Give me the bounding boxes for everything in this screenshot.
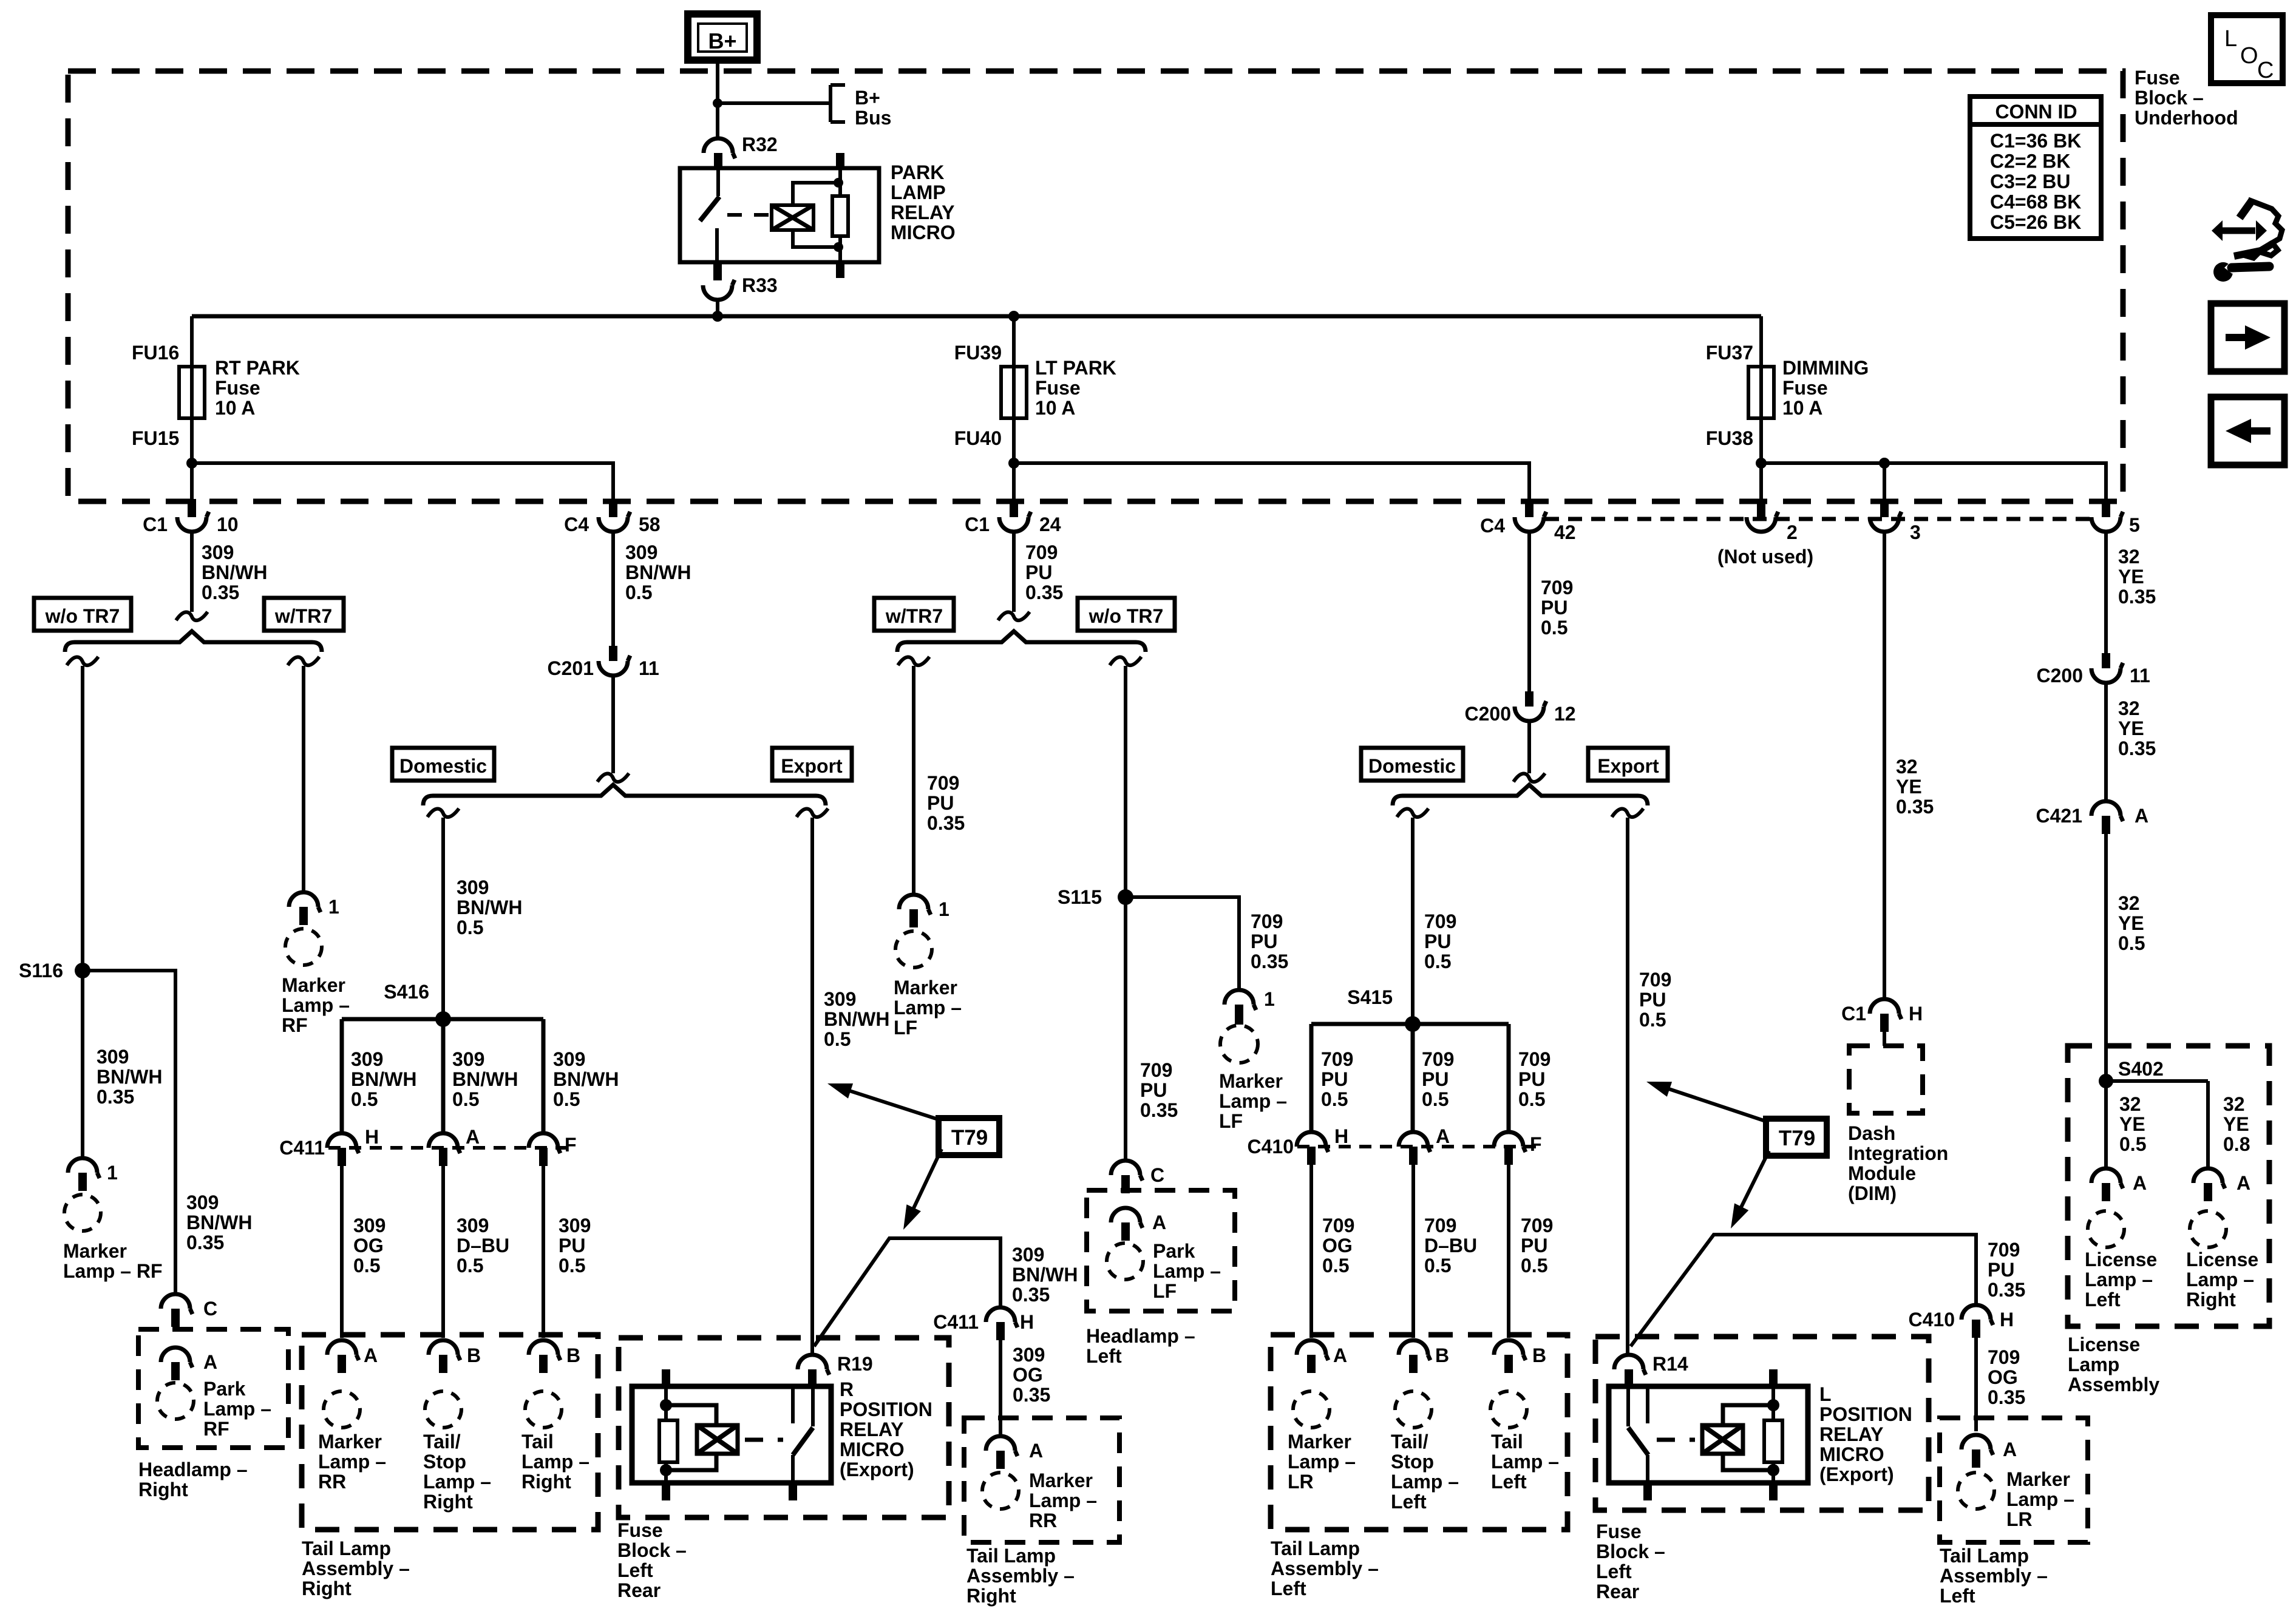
connector C410 pin H (1297, 1132, 1328, 1152)
svg-text:309: 309 (186, 1192, 219, 1213)
svg-text:Fuse: Fuse (2135, 67, 2180, 89)
node bus-FU39 (1008, 311, 1019, 322)
svg-text:Left: Left (2085, 1289, 2121, 1310)
svg-text:Export: Export (1597, 755, 1659, 777)
svg-text:PU: PU (1140, 1079, 1167, 1101)
wire Domestic branch to S416 (427, 808, 459, 817)
wire 32 YE 0.35 below C200-11 (2104, 682, 2108, 801)
lamp tail/stop lamp right bulb (425, 1391, 461, 1428)
svg-text:0.35: 0.35 (202, 581, 239, 603)
connector C411 pin F (529, 1133, 560, 1153)
svg-text:PU: PU (1518, 1068, 1545, 1090)
svg-text:Stop: Stop (423, 1451, 466, 1473)
svg-text:BN/WH: BN/WH (1012, 1264, 1078, 1286)
svg-text:0.5: 0.5 (1521, 1255, 1547, 1276)
node coil-resistor bottom (834, 242, 843, 252)
svg-text:709: 709 (1322, 1215, 1354, 1236)
wire branch w/o TR7 (67, 657, 98, 665)
arrow T79 to relay wire (910, 1149, 942, 1216)
svg-text:0.5: 0.5 (452, 1088, 479, 1110)
svg-text:Block –: Block – (617, 1539, 687, 1561)
svg-text:Lamp –: Lamp – (2006, 1488, 2074, 1510)
svg-text:Right: Right (423, 1491, 473, 1513)
svg-text:Right: Right (2186, 1289, 2236, 1310)
tail lamp assembly left dashed box (1271, 1335, 1567, 1530)
svg-text:0.35: 0.35 (1013, 1384, 1050, 1406)
svg-text:0.5: 0.5 (457, 1255, 483, 1276)
connector C421 pin A (2091, 801, 2123, 821)
wire C411-A down (441, 1166, 445, 1338)
svg-text:309: 309 (1012, 1244, 1044, 1266)
relay R19 coil (697, 1425, 738, 1454)
svg-text:1: 1 (1264, 988, 1275, 1010)
node FU38 branch (1756, 458, 1767, 469)
relay armature dashed link (727, 213, 770, 217)
svg-text:0.35: 0.35 (1012, 1284, 1050, 1306)
svg-text:A: A (1436, 1125, 1450, 1147)
svg-text:Lamp – RF: Lamp – RF (63, 1260, 163, 1282)
svg-text:Right: Right (138, 1479, 188, 1500)
relay R position relay micro box (632, 1386, 831, 1483)
svg-text:MICRO: MICRO (891, 222, 956, 243)
svg-text:A: A (2133, 1172, 2147, 1194)
svg-text:LAMP: LAMP (891, 181, 946, 203)
node bus-R33 (712, 311, 723, 322)
svg-text:B: B (1435, 1344, 1449, 1366)
arrow T79 to export wire (844, 1089, 942, 1120)
svg-text:0.35: 0.35 (1251, 951, 1288, 972)
connector C411 pin A (429, 1133, 460, 1153)
svg-text:Domestic: Domestic (399, 755, 487, 777)
svg-text:Lamp –: Lamp – (1288, 1451, 1356, 1473)
svg-text:C: C (203, 1298, 217, 1320)
fuse block left rear export dashed box (1595, 1337, 1929, 1510)
wire Export branch to R14 (1612, 808, 1643, 817)
svg-text:OG: OG (353, 1235, 384, 1256)
connector C200 pin 12 (1525, 691, 1533, 707)
lamp park lamp - LF bulb (1107, 1243, 1143, 1280)
wire bus to FU37 (1759, 316, 1763, 367)
svg-text:0.5: 0.5 (1322, 1255, 1349, 1276)
relay R14 armature dashed link (1657, 1438, 1695, 1442)
svg-text:A: A (1333, 1344, 1347, 1366)
connector pin B tail/stop lamp right (429, 1340, 460, 1360)
svg-text:709: 709 (1424, 910, 1456, 932)
option split bracket TR7 center (897, 631, 1146, 652)
icon service wrench arrows (2223, 228, 2255, 234)
svg-text:C201: C201 (548, 657, 594, 679)
lamp marker lamp - LF export bulb (1220, 1025, 1258, 1063)
icon previous arrow box (2211, 397, 2284, 465)
lamp park lamp - RF bulb (157, 1383, 194, 1419)
relay L position relay micro box (1609, 1386, 1808, 1483)
svg-text:RR: RR (318, 1471, 346, 1493)
wire S116 down to marker lamp RF (81, 971, 84, 1158)
connector R14 (1614, 1355, 1646, 1375)
connector C201 pin 11 (609, 646, 617, 661)
svg-text:DIMMING: DIMMING (1782, 357, 1869, 379)
svg-text:R33: R33 (742, 274, 778, 296)
svg-text:0.5: 0.5 (1541, 617, 1567, 639)
svg-text:32: 32 (2118, 546, 2140, 568)
svg-text:Marker: Marker (1029, 1470, 1093, 1491)
svg-text:S115: S115 (1058, 886, 1102, 908)
tail lamp assembly left export dashed box (1940, 1418, 2088, 1542)
lamp marker lamp LR export bulb (1958, 1473, 1994, 1509)
svg-text:POSITION: POSITION (840, 1398, 932, 1420)
svg-text:T79: T79 (951, 1126, 988, 1150)
connector C1 pin 10 (188, 499, 196, 517)
svg-text:Park: Park (1153, 1240, 1195, 1262)
option box w/TR7 center (874, 598, 954, 631)
svg-text:B+: B+ (708, 29, 736, 53)
svg-text:Lamp –: Lamp – (2186, 1269, 2254, 1290)
svg-text:(Export): (Export) (1819, 1463, 1894, 1485)
connector pin A park lamp LF (1111, 1208, 1143, 1228)
connector pin A park lamp RF (161, 1347, 192, 1368)
svg-text:PU: PU (1025, 561, 1052, 583)
svg-text:BN/WH: BN/WH (824, 1008, 889, 1030)
svg-text:0.5: 0.5 (2119, 1133, 2146, 1155)
svg-text:Rear: Rear (1596, 1581, 1639, 1602)
svg-text:Assembly –: Assembly – (302, 1558, 410, 1579)
svg-text:0.35: 0.35 (1988, 1386, 2025, 1408)
svg-text:709: 709 (1251, 910, 1283, 932)
svg-text:Right: Right (521, 1471, 571, 1493)
svg-text:LT PARK: LT PARK (1035, 357, 1116, 379)
svg-text:709: 709 (1639, 969, 1671, 991)
wire 309 BN/WH 0.5 (611, 531, 615, 646)
svg-text:0.35: 0.35 (97, 1086, 134, 1108)
svg-text:PARK: PARK (891, 161, 944, 183)
svg-text:Block –: Block – (2135, 87, 2204, 109)
svg-text:0.5: 0.5 (1518, 1088, 1545, 1110)
connector pin 1 marker lamp RF (289, 892, 321, 912)
connector C200 pin 11 (2102, 653, 2110, 668)
svg-text:Marker: Marker (1288, 1431, 1351, 1453)
connector pin 2 not used (1757, 499, 1765, 517)
svg-text:0.5: 0.5 (824, 1028, 851, 1050)
svg-text:0.35: 0.35 (186, 1232, 224, 1253)
svg-text:PU: PU (927, 792, 954, 814)
label box T79 right (1766, 1119, 1827, 1156)
svg-text:0.35: 0.35 (2118, 586, 2156, 608)
svg-text:309: 309 (1013, 1344, 1045, 1366)
connector pin 3 (1880, 499, 1889, 517)
svg-text:PU: PU (1321, 1068, 1348, 1090)
node R14 resistor bottom (1767, 1464, 1779, 1476)
svg-text:Lamp –: Lamp – (2085, 1269, 2153, 1290)
svg-text:Fuse: Fuse (617, 1519, 663, 1541)
lamp marker lamp RR export bulb (982, 1473, 1019, 1509)
wire branch w/TR7 (288, 657, 319, 665)
svg-text:A: A (203, 1351, 217, 1373)
node branch connector 3 (1879, 458, 1890, 469)
wire 709 OG 0.35 (1974, 1338, 1978, 1431)
option box Export (772, 748, 852, 781)
svg-text:Lamp –: Lamp – (521, 1451, 589, 1473)
wire FU15 down (190, 418, 194, 501)
svg-text:B: B (467, 1344, 481, 1366)
svg-text:FU40: FU40 (954, 427, 1002, 449)
svg-text:A: A (466, 1126, 480, 1148)
svg-text:C4=68 BK: C4=68 BK (1990, 191, 2081, 213)
svg-text:PU: PU (1521, 1235, 1547, 1256)
wire R33 to bus (716, 299, 719, 316)
connector pin B tail/stop lamp left (1399, 1340, 1430, 1360)
option box Export right (1588, 748, 1668, 781)
svg-text:Fuse: Fuse (1596, 1520, 1642, 1542)
wire S116 to park lamp RF branch (83, 971, 175, 1294)
wire branch w/o TR7 center (1110, 657, 1141, 665)
svg-text:0.5: 0.5 (559, 1255, 585, 1276)
connector pin B tail lamp left (1494, 1340, 1526, 1360)
svg-text:0.5: 0.5 (1422, 1088, 1449, 1110)
connector C410 dashed line (1297, 1145, 1536, 1148)
svg-text:FU38: FU38 (1706, 427, 1753, 449)
svg-text:C5=26 BK: C5=26 BK (1990, 211, 2081, 233)
wire R14 coil loop top (1723, 1405, 1773, 1425)
connector pin 1 marker lamp RF left (68, 1158, 100, 1178)
svg-text:0.8: 0.8 (2223, 1133, 2250, 1155)
wire C411-F down (542, 1166, 545, 1338)
wire S115 to marker lamp LF export (1126, 897, 1239, 991)
svg-text:Lamp –: Lamp – (203, 1398, 271, 1420)
svg-text:A: A (1152, 1212, 1166, 1233)
svg-text:1: 1 (939, 898, 949, 920)
svg-text:PU: PU (1639, 989, 1666, 1011)
svg-text:Fuse: Fuse (215, 377, 260, 399)
svg-text:O: O (2240, 43, 2258, 69)
lamp license lamp right bulb (2190, 1211, 2226, 1247)
lamp license lamp left bulb (2088, 1211, 2124, 1247)
svg-text:C411: C411 (279, 1137, 325, 1159)
connector C4 pin 42 (1525, 499, 1533, 517)
svg-text:0.35: 0.35 (927, 812, 965, 834)
svg-text:Tail: Tail (1491, 1431, 1523, 1453)
svg-text:(Not used): (Not used) (1717, 546, 1813, 568)
svg-text:Headlamp –: Headlamp – (138, 1459, 248, 1480)
svg-text:Assembly –: Assembly – (1940, 1565, 2048, 1587)
svg-text:Marker: Marker (2006, 1468, 2070, 1490)
wire coil loop top (793, 183, 838, 205)
svg-text:Block –: Block – (1596, 1541, 1665, 1562)
relay R14 switch (1626, 1386, 1630, 1426)
svg-text:C: C (1150, 1164, 1164, 1186)
svg-text:S116: S116 (19, 960, 63, 981)
license lamp assembly dashed box (2068, 1046, 2269, 1326)
svg-text:Lamp: Lamp (2068, 1354, 2119, 1375)
svg-text:C1: C1 (1841, 1003, 1866, 1025)
svg-text:H: H (2000, 1309, 2014, 1331)
svg-text:0.35: 0.35 (2118, 737, 2156, 759)
label box T79 left (939, 1118, 999, 1155)
tail lamp assembly right dashed box (302, 1335, 598, 1530)
svg-text:709: 709 (927, 772, 959, 794)
tail lamp assembly right export dashed box (964, 1418, 1119, 1542)
svg-text:OG: OG (1322, 1235, 1353, 1256)
svg-text:BN/WH: BN/WH (351, 1068, 416, 1090)
svg-text:10 A: 10 A (215, 397, 255, 419)
svg-text:Bus: Bus (855, 107, 891, 129)
svg-text:709: 709 (1988, 1239, 2020, 1261)
svg-text:Assembly –: Assembly – (1271, 1558, 1379, 1579)
B+ Bus terminal symbol (829, 85, 832, 122)
node FU40 branch (1008, 458, 1019, 469)
lamp marker lamp - RR bulb (324, 1391, 360, 1428)
svg-text:RT PARK: RT PARK (215, 357, 300, 379)
svg-text:709: 709 (1521, 1215, 1553, 1236)
svg-text:(DIM): (DIM) (1848, 1182, 1897, 1204)
wire C201 to split (611, 674, 615, 773)
headlamp right dashed box (138, 1329, 288, 1448)
svg-text:C410: C410 (1248, 1136, 1294, 1158)
connector R32 (704, 138, 735, 158)
svg-text:32: 32 (2118, 697, 2140, 719)
connector C411 dashed line (328, 1146, 571, 1150)
connector C410 pin A (1399, 1132, 1430, 1152)
svg-text:309: 309 (457, 876, 489, 898)
lamp tail lamp right bulb (525, 1391, 562, 1428)
svg-text:Park: Park (203, 1378, 246, 1400)
wire main B+ feed bus (192, 314, 1761, 319)
svg-text:RR: RR (1029, 1510, 1057, 1531)
svg-text:Marker: Marker (318, 1431, 382, 1453)
svg-text:Tail: Tail (521, 1431, 554, 1453)
fuse FU37-FU38 DIMMING 10A (1759, 367, 1763, 418)
svg-text:YE: YE (2118, 912, 2144, 934)
wire S416 bus (342, 1017, 543, 1022)
svg-text:Marker: Marker (894, 977, 957, 998)
relay R14 coil (1702, 1425, 1743, 1454)
option box w/TR7 (264, 598, 344, 631)
svg-text:309: 309 (824, 988, 856, 1010)
connector pin A marker lamp RR (327, 1340, 359, 1360)
svg-text:Left: Left (1086, 1345, 1122, 1367)
svg-text:H: H (1020, 1311, 1034, 1333)
svg-text:FU37: FU37 (1706, 342, 1753, 364)
wire branch w/TR7 center (898, 657, 929, 665)
node FU15 branch (186, 458, 197, 469)
svg-text:0.35: 0.35 (1140, 1099, 1178, 1121)
svg-text:RELAY: RELAY (840, 1419, 904, 1440)
resistor in relay (836, 153, 844, 168)
wire C200-12 to split (1527, 720, 1531, 773)
svg-text:C4: C4 (564, 514, 589, 535)
svg-text:Left: Left (1271, 1578, 1306, 1599)
svg-text:PU: PU (1251, 931, 1277, 952)
svg-text:0.5: 0.5 (553, 1088, 580, 1110)
option box Domestic right (1361, 748, 1463, 781)
svg-text:YE: YE (1896, 776, 1922, 798)
svg-text:1: 1 (328, 896, 339, 918)
wire bus to FU39 (1012, 316, 1016, 367)
svg-text:309: 309 (97, 1046, 129, 1068)
icon next arrow box (2211, 303, 2284, 371)
node coil-resistor top (834, 178, 843, 188)
svg-text:309: 309 (553, 1048, 585, 1070)
svg-text:Tail Lamp: Tail Lamp (966, 1545, 1056, 1567)
svg-text:LR: LR (2006, 1508, 2033, 1530)
connector pin 1 marker lamp LF (899, 895, 931, 915)
node B+ bus junction (713, 98, 722, 108)
connector C1 pin 24 (1010, 499, 1018, 517)
wire FU38 down (1759, 418, 1763, 501)
svg-text:B: B (566, 1344, 580, 1366)
svg-text:BN/WH: BN/WH (457, 897, 522, 918)
svg-text:309: 309 (457, 1215, 489, 1236)
svg-text:Marker: Marker (1219, 1070, 1283, 1092)
svg-text:Assembly –: Assembly – (966, 1565, 1075, 1587)
connector R19 (798, 1355, 829, 1375)
svg-text:709: 709 (1422, 1048, 1454, 1070)
connector pin A marker lamp RR export (986, 1436, 1017, 1456)
svg-text:CONN ID: CONN ID (1995, 101, 2077, 123)
svg-text:C200: C200 (2037, 665, 2084, 686)
svg-text:0.5: 0.5 (1424, 951, 1451, 972)
wire bus to FU16 (190, 316, 194, 367)
svg-text:LF: LF (894, 1017, 917, 1039)
svg-text:C200: C200 (1465, 703, 1512, 725)
svg-text:Headlamp –: Headlamp – (1086, 1325, 1195, 1347)
wire branch to connector 3 (1883, 463, 1886, 501)
svg-text:3: 3 (1910, 521, 1921, 543)
svg-text:w/o TR7: w/o TR7 (45, 605, 120, 627)
svg-text:LR: LR (1288, 1471, 1314, 1493)
svg-text:32: 32 (2119, 1093, 2141, 1115)
svg-text:F: F (1530, 1133, 1542, 1155)
svg-text:10 A: 10 A (1035, 397, 1075, 419)
wire to B+ Bus tap (718, 101, 830, 105)
svg-text:32: 32 (1896, 756, 1918, 778)
svg-text:Export: Export (781, 755, 843, 777)
svg-text:Tail Lamp: Tail Lamp (302, 1537, 391, 1559)
wire C410-F down (1507, 1165, 1510, 1338)
relay coil (772, 205, 813, 230)
svg-text:LF: LF (1153, 1280, 1177, 1302)
fuse block underhood dashed outline (68, 71, 2123, 501)
svg-text:BN/WH: BN/WH (186, 1212, 252, 1233)
svg-text:0.5: 0.5 (625, 581, 652, 603)
svg-text:RF: RF (203, 1418, 229, 1440)
wire 309 BN/WH 0.35 below C1-10 (190, 531, 194, 612)
resistor in R19 relay (662, 1369, 670, 1386)
svg-text:H: H (365, 1126, 379, 1148)
svg-text:709: 709 (1321, 1048, 1353, 1070)
wire S415 bus (1311, 1022, 1509, 1026)
svg-text:License: License (2085, 1249, 2157, 1270)
wire 709 PU 0.5 (1527, 531, 1531, 691)
connector pin A marker lamp LR export (1961, 1435, 1993, 1455)
svg-text:Dash: Dash (1848, 1122, 1895, 1144)
svg-text:Lamp –: Lamp – (1219, 1090, 1287, 1112)
svg-text:MICRO: MICRO (1819, 1443, 1884, 1465)
svg-text:(Export): (Export) (840, 1459, 914, 1480)
wire 309 OG 0.35 (999, 1340, 1002, 1435)
svg-text:0.5: 0.5 (1321, 1088, 1348, 1110)
svg-text:OG: OG (1013, 1364, 1043, 1386)
connector pin 5 (2102, 499, 2110, 517)
svg-text:L: L (2224, 26, 2237, 52)
svg-text:PU: PU (1422, 1068, 1449, 1090)
svg-text:C3=2 BU: C3=2 BU (1990, 171, 2071, 192)
wire R19 to C411-H jog (814, 1238, 1000, 1346)
wire 32 YE 0.35 to DIM (1883, 531, 1886, 999)
svg-text:RELAY: RELAY (891, 202, 955, 223)
svg-text:License: License (2186, 1249, 2258, 1270)
svg-text:Lamp –: Lamp – (282, 994, 350, 1016)
svg-text:S415: S415 (1347, 986, 1393, 1008)
